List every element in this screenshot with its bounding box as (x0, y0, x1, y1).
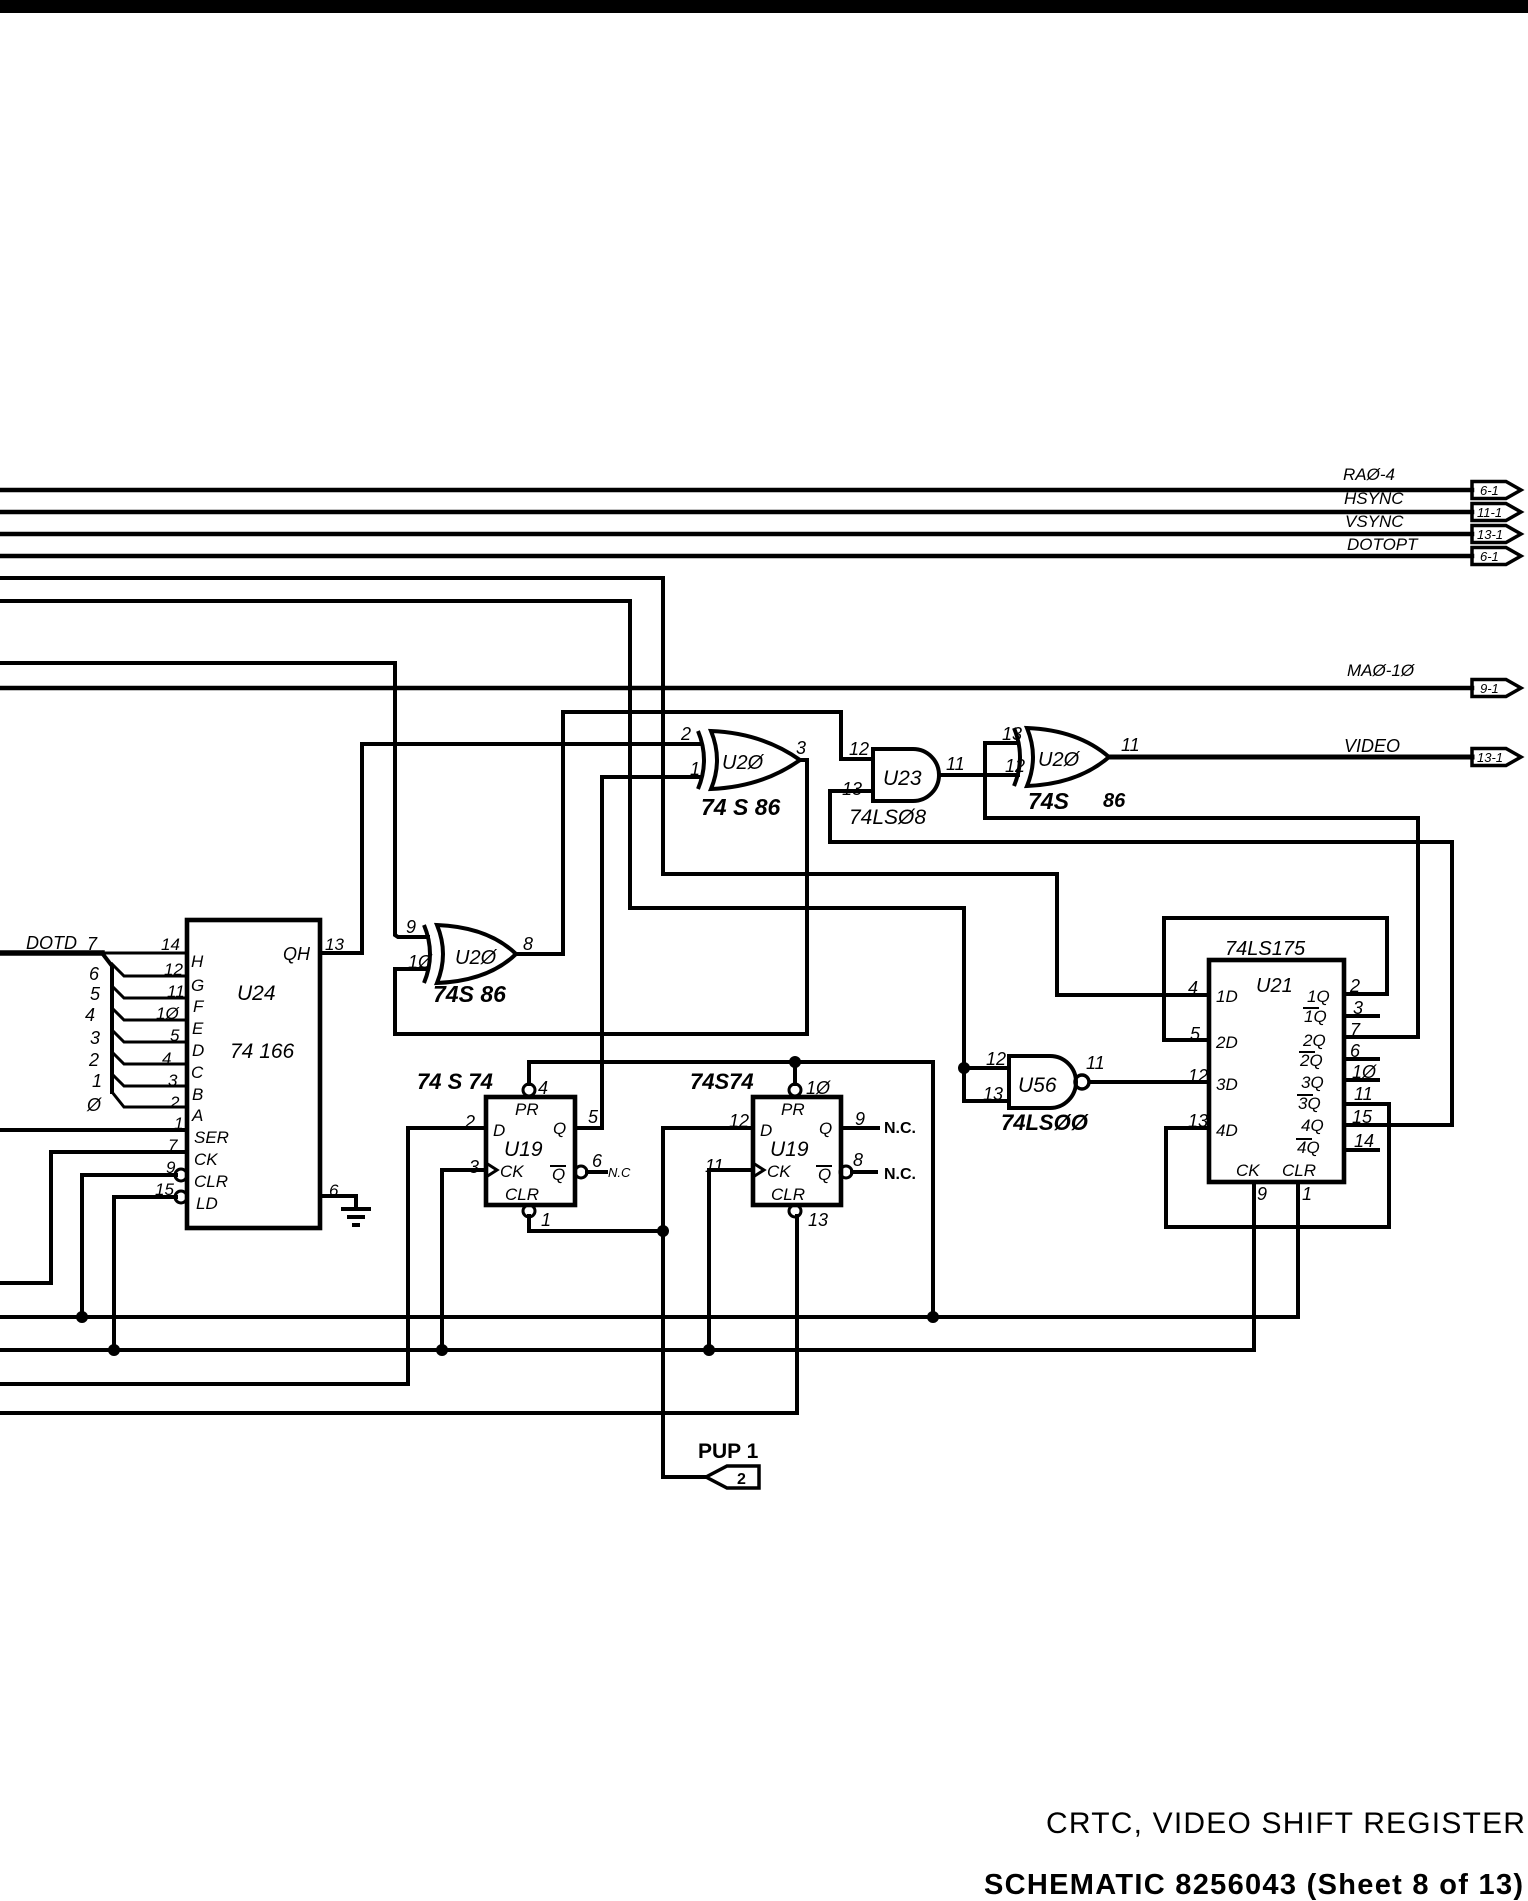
svg-text:5: 5 (588, 1107, 599, 1127)
svg-text:4: 4 (538, 1078, 548, 1098)
svg-text:2Q: 2Q (1302, 1031, 1326, 1050)
wire U56 pin12 stub (964, 1066, 1009, 1070)
svg-text:DOTD: DOTD (26, 933, 77, 953)
svg-text:CK: CK (1236, 1161, 1260, 1180)
svg-text:3: 3 (469, 1157, 479, 1177)
svg-text:4: 4 (85, 1005, 95, 1025)
svg-text:E: E (192, 1019, 204, 1038)
wire U23 pin13 to U21 4Q (830, 791, 1452, 1125)
svg-text:F: F (193, 997, 205, 1016)
svg-text:CK: CK (194, 1150, 218, 1169)
svg-text:4D: 4D (1216, 1121, 1238, 1140)
svg-text:7: 7 (168, 1136, 178, 1155)
svg-text:14: 14 (161, 935, 180, 954)
svg-text:G: G (191, 976, 204, 995)
svg-text:U19: U19 (770, 1138, 809, 1161)
wire U19b PR stub (793, 1062, 797, 1084)
svg-text:13: 13 (808, 1210, 828, 1230)
svg-text:B: B (192, 1085, 203, 1104)
svg-text:8: 8 (853, 1150, 863, 1170)
svg-text:13-1: 13-1 (1477, 750, 1503, 765)
svg-text:3: 3 (796, 738, 806, 758)
svg-text:9-1: 9-1 (1480, 681, 1499, 696)
svg-text:1: 1 (541, 1210, 551, 1230)
svg-text:15: 15 (155, 1180, 174, 1199)
svg-text:13: 13 (325, 935, 344, 954)
wire DOTOPT (0, 554, 1472, 559)
connector VIDEO 13-1 (1472, 749, 1521, 766)
svg-text:13: 13 (1002, 724, 1022, 744)
svg-text:5: 5 (1190, 1024, 1201, 1044)
svg-text:Q: Q (818, 1165, 831, 1184)
wire QH U24 to XOR1 pin2 (320, 744, 701, 953)
svg-text:74S: 74S (1028, 788, 1070, 814)
wire U19a Qbar NC stub (587, 1170, 606, 1174)
connector MA0-10 9-1 (1472, 680, 1521, 697)
junction U56 tied inputs (958, 1062, 970, 1074)
svg-text:5: 5 (90, 984, 101, 1004)
svg-text:1: 1 (92, 1071, 102, 1091)
svg-text:CLR: CLR (194, 1172, 228, 1191)
svg-text:74LS175: 74LS175 (1225, 938, 1306, 960)
flip-flop U19 no.2 74S74 (753, 1084, 852, 1217)
wire U19b CLR from left edge (0, 1216, 797, 1413)
quad flip-flop U21 74LS175 (1209, 960, 1344, 1182)
wire U24 SER from left edge (0, 1128, 187, 1132)
svg-text:CLR: CLR (1282, 1161, 1316, 1180)
svg-text:1: 1 (690, 759, 700, 779)
wire net XOR2 pin9 from left edge (0, 663, 428, 937)
svg-text:QH: QH (283, 944, 311, 964)
svg-text:U2Ø: U2Ø (1038, 749, 1081, 771)
svg-text:5: 5 (170, 1026, 180, 1045)
svg-text:N.C.: N.C. (884, 1120, 916, 1137)
svg-text:3D: 3D (1216, 1075, 1238, 1094)
svg-text:1D: 1D (1216, 987, 1238, 1006)
wire U19a Q to XOR1 pin1 (575, 777, 701, 1128)
svg-text:11-1: 11-1 (1477, 505, 1502, 520)
wire U21 3Qbar feedback to 4D (1166, 1104, 1389, 1227)
svg-text:12: 12 (729, 1111, 749, 1131)
svg-text:2: 2 (1349, 976, 1360, 996)
svg-text:11: 11 (705, 1156, 724, 1176)
wire U19b Q NC stub (841, 1126, 878, 1130)
page top scan bar (0, 0, 1528, 13)
svg-text:74 166: 74 166 (230, 1040, 295, 1063)
svg-text:H: H (191, 952, 204, 971)
wire U56 out to U21 3D (1090, 1080, 1209, 1084)
svg-text:2: 2 (88, 1050, 99, 1070)
svg-text:3Q: 3Q (1301, 1073, 1324, 1092)
wire U19a CLR to node (529, 1216, 663, 1231)
svg-text:U24: U24 (237, 982, 276, 1005)
svg-text:13: 13 (983, 1084, 1003, 1104)
svg-text:3: 3 (1353, 998, 1363, 1018)
wire U24 CK from left edge (0, 1152, 187, 1283)
wire XOR1 out to XOR2 pin10 (395, 760, 807, 1034)
junction U24 LD on clock bus (108, 1344, 120, 1356)
wire XOR2 out to U23 pin12 (516, 712, 873, 954)
svg-text:MAØ-1Ø: MAØ-1Ø (1347, 661, 1416, 680)
svg-text:74S 86: 74S 86 (433, 981, 506, 1007)
wire CLR bus line (0, 1182, 1298, 1317)
svg-text:4: 4 (1188, 978, 1198, 998)
svg-text:N.C.: N.C. (884, 1166, 916, 1183)
svg-text:15: 15 (1352, 1107, 1373, 1127)
xor gate U20 no.1 (698, 731, 800, 789)
svg-text:11: 11 (167, 982, 185, 1001)
svg-text:D: D (192, 1041, 204, 1060)
junction node PUP1 / U19a CLR / U19b D (657, 1225, 669, 1237)
svg-text:74LSØØ: 74LSØØ (1001, 1110, 1089, 1135)
svg-text:6-1: 6-1 (1480, 483, 1499, 498)
svg-text:1Ø: 1Ø (408, 952, 433, 972)
junction U19b CK on clock bus (703, 1344, 715, 1356)
junction U19b PR on preset line (789, 1056, 801, 1068)
svg-text:3: 3 (90, 1028, 100, 1048)
svg-text:13: 13 (1188, 1111, 1208, 1131)
svg-text:11: 11 (1086, 1053, 1105, 1073)
wire net U21-1D from left edge (0, 578, 1209, 995)
svg-text:6: 6 (1350, 1041, 1361, 1061)
shift register U24 74166 (175, 920, 320, 1228)
svg-text:11: 11 (1121, 735, 1140, 755)
svg-text:1Q: 1Q (1304, 1007, 1327, 1026)
svg-text:2Q: 2Q (1299, 1051, 1323, 1070)
svg-text:12: 12 (164, 960, 183, 979)
wire U21 1Qbar stub (1344, 1014, 1378, 1018)
svg-text:U2Ø: U2Ø (455, 947, 498, 969)
svg-text:74 S 74: 74 S 74 (417, 1069, 493, 1094)
svg-text:Ø: Ø (86, 1095, 102, 1115)
wire U19a D from left edge (0, 1128, 486, 1384)
connector HSYNC 11-1 (1472, 504, 1521, 521)
svg-text:PR: PR (515, 1100, 539, 1119)
connector VSYNC 13-1 (1472, 526, 1521, 543)
svg-text:RAØ-4: RAØ-4 (1343, 465, 1395, 484)
svg-text:6-1: 6-1 (1480, 549, 1499, 564)
svg-text:9: 9 (406, 917, 416, 937)
svg-text:CK: CK (767, 1162, 791, 1181)
svg-text:DOTOPT: DOTOPT (1347, 535, 1419, 554)
svg-text:1Q: 1Q (1307, 987, 1330, 1006)
wire U19b Qbar NC stub (852, 1170, 876, 1174)
svg-text:VSYNC: VSYNC (1345, 512, 1404, 531)
svg-text:2: 2 (169, 1093, 180, 1112)
svg-text:Q: Q (819, 1119, 832, 1138)
svg-text:1Ø: 1Ø (1352, 1062, 1377, 1082)
svg-text:9: 9 (855, 1109, 865, 1129)
svg-text:C: C (191, 1063, 204, 1082)
svg-text:12: 12 (849, 739, 869, 759)
flip-flop U19 no.1 74S74 (486, 1084, 587, 1217)
junction U19a CK on clock bus (436, 1344, 448, 1356)
svg-text:11: 11 (1354, 1084, 1373, 1104)
xor gate U20 no.2 (424, 925, 516, 983)
svg-text:CLR: CLR (505, 1185, 539, 1204)
svg-text:1: 1 (174, 1114, 183, 1133)
xor gate U20 no.3 (1014, 728, 1109, 786)
svg-text:U2Ø: U2Ø (722, 752, 765, 774)
svg-text:2: 2 (737, 1471, 746, 1488)
wire PR line U19a U19b (529, 1062, 933, 1317)
svg-text:LD: LD (196, 1194, 218, 1213)
svg-text:1: 1 (1302, 1184, 1312, 1204)
wire U23 out to XOR3 pin12 (941, 773, 1018, 777)
svg-text:2D: 2D (1215, 1033, 1238, 1052)
svg-text:2: 2 (680, 724, 691, 744)
wire XOR3 pin13 to U21 2Q (985, 743, 1418, 1037)
svg-text:VIDEO: VIDEO (1344, 736, 1400, 756)
svg-text:9: 9 (1257, 1184, 1267, 1204)
svg-text:N.C: N.C (608, 1165, 631, 1180)
svg-text:PUP 1: PUP 1 (698, 1440, 759, 1463)
junction preset line on clear bus (927, 1311, 939, 1323)
junction U24 CLR on clear bus (76, 1311, 88, 1323)
svg-text:4Q: 4Q (1297, 1138, 1320, 1157)
wire VSYNC (0, 532, 1472, 537)
wire RA0-4 (0, 488, 1472, 493)
svg-text:U19: U19 (504, 1138, 543, 1161)
svg-text:6: 6 (89, 964, 100, 984)
svg-text:13-1: 13-1 (1477, 527, 1503, 542)
bus DOTD (0, 953, 187, 1107)
nand gate U56 74LS00 (1009, 1056, 1089, 1108)
svg-text:6: 6 (592, 1151, 603, 1171)
svg-text:CK: CK (500, 1162, 524, 1181)
wire MA0-10 (0, 686, 1472, 691)
svg-text:SCHEMATIC 8256043 (Sheet 8 of: SCHEMATIC 8256043 (Sheet 8 of 13) (984, 1869, 1524, 1901)
svg-text:3Q: 3Q (1298, 1094, 1321, 1113)
svg-text:2: 2 (464, 1112, 475, 1132)
and gate U23 74LS08 (873, 749, 939, 801)
svg-text:12: 12 (1005, 756, 1025, 776)
svg-text:1Ø: 1Ø (156, 1004, 180, 1023)
svg-text:74LSØ8: 74LSØ8 (849, 806, 926, 829)
svg-text:74 S 86: 74 S 86 (701, 794, 780, 820)
wire U19b D / PUP1 riser (663, 1128, 753, 1477)
svg-text:PR: PR (781, 1100, 805, 1119)
wire VIDEO from XOR3 out (1109, 755, 1472, 760)
wire U19b CK tap (709, 1170, 753, 1350)
svg-text:Q: Q (553, 1119, 566, 1138)
svg-text:9: 9 (166, 1158, 176, 1177)
svg-text:U23: U23 (883, 767, 922, 790)
ground (341, 1209, 371, 1225)
svg-text:8: 8 (523, 934, 533, 954)
svg-text:1Ø: 1Ø (806, 1078, 831, 1098)
connector PUP1 2 (706, 1466, 759, 1488)
svg-text:12: 12 (986, 1049, 1006, 1069)
svg-text:SER: SER (194, 1128, 229, 1147)
wire HSYNC (0, 510, 1472, 515)
svg-text:14: 14 (1354, 1131, 1374, 1151)
svg-text:12: 12 (1188, 1066, 1208, 1086)
svg-text:Q: Q (552, 1165, 565, 1184)
svg-text:CRTC, VIDEO SHIFT REGISTER: CRTC, VIDEO SHIFT REGISTER (1046, 1807, 1526, 1840)
svg-text:11: 11 (946, 754, 965, 774)
wire U19a CK tap (442, 1170, 486, 1350)
wire U24 pin6 to ground (320, 1196, 356, 1208)
svg-text:CLR: CLR (771, 1185, 805, 1204)
svg-text:7: 7 (1350, 1020, 1361, 1040)
wire U21 1Q feedback to 2D (1164, 918, 1387, 1040)
svg-text:U21: U21 (1256, 975, 1293, 997)
svg-text:HSYNC: HSYNC (1344, 489, 1404, 508)
svg-text:7: 7 (87, 934, 98, 954)
svg-text:3: 3 (168, 1071, 178, 1090)
wire CK bus line (0, 1182, 1254, 1350)
wire U24 CLR tap (82, 1175, 176, 1317)
svg-text:A: A (191, 1106, 203, 1125)
svg-text:86: 86 (1103, 790, 1126, 812)
wire U21 4Qbar stub (1344, 1148, 1378, 1152)
wire U24 LD tap (114, 1197, 176, 1350)
svg-text:13: 13 (842, 779, 862, 799)
svg-text:4Q: 4Q (1301, 1116, 1324, 1135)
svg-text:6: 6 (329, 1181, 339, 1200)
wire U21 3Q stub (1344, 1078, 1378, 1082)
wire U21 2Qbar stub (1344, 1057, 1378, 1061)
svg-text:U56: U56 (1018, 1074, 1057, 1097)
svg-text:74S74: 74S74 (690, 1069, 754, 1094)
connector RA0-4 6-1 (1472, 482, 1521, 499)
wire net U56 input from left edge (0, 601, 1009, 1101)
svg-text:4: 4 (162, 1049, 171, 1068)
connector DOTOPT 6-1 (1472, 548, 1521, 565)
